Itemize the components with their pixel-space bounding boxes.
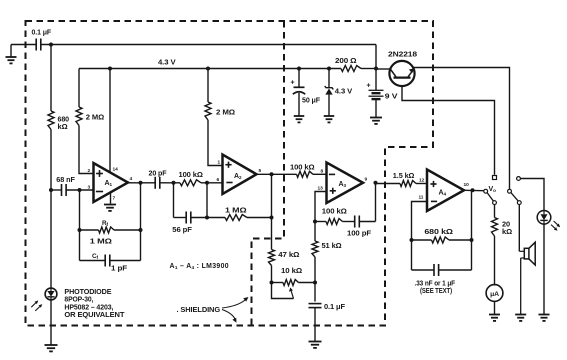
capacitor Cf 1pF plates xyxy=(105,255,110,267)
label 47 kOhm xyxy=(278,250,299,259)
svg-text:47 kΩ: 47 kΩ xyxy=(278,250,299,259)
wire 0.1uF to ground xyxy=(314,308,316,342)
op-amp A1 plus sign xyxy=(96,170,103,177)
wire A2 pin5 out xyxy=(257,173,297,175)
svg-text:100 pF: 100 pF xyxy=(347,229,372,238)
svg-text:14: 14 xyxy=(113,167,119,173)
wire .33nF right stub xyxy=(439,269,472,271)
ground (speaker) xyxy=(515,315,526,321)
pin 14 label xyxy=(113,167,119,173)
node rail at A1 pin14 xyxy=(108,67,112,71)
wire A3 out vertical xyxy=(375,183,377,222)
label 1.5 kOhm xyxy=(393,171,415,180)
wire rail to 2M top xyxy=(78,69,80,108)
resistor 100 kOhm (A3 in) xyxy=(297,171,314,177)
wire 100k to A3 pin8 xyxy=(313,173,327,175)
switch S1 (meter select) xyxy=(484,189,497,204)
svg-text:6: 6 xyxy=(217,177,220,183)
wire A1 pin4 out xyxy=(128,182,155,184)
svg-text:56 pF: 56 pF xyxy=(172,225,192,234)
svg-text:+: + xyxy=(291,80,295,87)
pin 13 label (A3 +in) xyxy=(318,186,324,192)
wire 20pF to 100k xyxy=(160,182,180,184)
node Rf left xyxy=(78,228,82,232)
wire photodiode to ground xyxy=(50,300,52,345)
wire A3 out to 1.5k xyxy=(376,183,401,185)
svg-text:2: 2 xyxy=(88,168,91,174)
resistor 200 Ohm xyxy=(341,66,361,72)
resistor 100 kOhm (A3 fb) xyxy=(326,219,343,225)
label plus (50uF) xyxy=(291,80,295,87)
pin 14 wire (A1 V+) xyxy=(109,69,111,173)
svg-text:0.1 μF: 0.1 μF xyxy=(32,28,52,37)
wire Q1 emitter lead xyxy=(402,86,495,175)
svg-text:13: 13 xyxy=(318,186,324,192)
svg-text:9 V: 9 V xyxy=(385,91,398,100)
svg-text:2N2218: 2N2218 xyxy=(388,50,417,59)
LED emission arrows xyxy=(551,221,560,231)
zener diode 4.3V symbol xyxy=(325,86,334,95)
wire 4.3V rail xyxy=(79,68,376,70)
speaker symbol xyxy=(519,242,535,314)
meter uA symbol xyxy=(486,285,503,302)
label A1-A4 LM3900 xyxy=(170,263,229,270)
wire 50uF to ground xyxy=(298,93,300,116)
label 9 V xyxy=(385,91,398,100)
label Vo xyxy=(489,186,497,193)
wire 100k to A2 pin6 xyxy=(201,182,223,184)
resistor 1 MOhm (A2 fb) xyxy=(225,215,247,221)
svg-text:1 MΩ: 1 MΩ xyxy=(90,236,112,245)
capacitor .33nF plates xyxy=(434,264,439,276)
resistor 680 kOhm (A4 fb) xyxy=(432,237,450,243)
op-amp A1 minus sign xyxy=(96,191,103,193)
pot wiper arm and arrow xyxy=(272,283,294,299)
node pot left junction xyxy=(270,281,274,285)
svg-text:200 Ω: 200 Ω xyxy=(335,56,357,65)
label Cf xyxy=(92,253,99,260)
switch S2 (speaker select) xyxy=(508,189,522,204)
node A2 fb junction xyxy=(205,216,209,220)
svg-text:8: 8 xyxy=(321,169,324,175)
LED D2 symbol xyxy=(537,211,551,225)
op-amp A4 triangle xyxy=(427,170,464,212)
label 20 pF xyxy=(149,169,168,178)
svg-text:0.1 μF: 0.1 μF xyxy=(324,302,346,311)
wire A2out junction down to 47k xyxy=(271,218,273,250)
label 0.1uF (filter) xyxy=(324,302,346,311)
wire 680k top segment xyxy=(50,45,52,112)
wire A2 -in to fb junction xyxy=(206,183,208,218)
svg-text:kΩ: kΩ xyxy=(58,122,68,131)
label 200 Ohm xyxy=(335,56,357,65)
svg-text:A1 – A4 : LM3900: A1 – A4 : LM3900 xyxy=(170,263,229,270)
op-amp A2 triangle xyxy=(223,155,257,195)
label 4.3 V (zener) xyxy=(335,87,353,96)
op-amp A2 minus sign xyxy=(226,182,232,184)
svg-text:10: 10 xyxy=(464,182,470,188)
wire fb node to 100k (A3 fb) xyxy=(315,221,326,223)
node 56pF tap left xyxy=(172,181,176,185)
svg-text:kΩ: kΩ xyxy=(502,227,512,236)
node rail at zener xyxy=(327,67,331,71)
ground (zener) xyxy=(324,116,335,122)
ground (A1 pin 7) xyxy=(104,205,116,211)
label SHIELDING with leader arrows xyxy=(177,297,249,323)
op-amp A4 plus sign xyxy=(430,181,436,187)
label 51 kOhm xyxy=(322,241,342,250)
label 10 kOhm xyxy=(281,266,302,275)
node A1 -in junction xyxy=(78,188,82,192)
ground (input common, top-left) xyxy=(6,45,17,64)
op-amp A2 label xyxy=(234,173,242,180)
wire 56pF left stub xyxy=(174,217,187,219)
wire 2M to A2 pin1 xyxy=(208,120,223,166)
pin 12 label (A4 +in) xyxy=(419,178,425,184)
pin 6 label (A2 -in) xyxy=(217,177,220,183)
label PHOTODIODE text xyxy=(64,287,125,319)
pin 2 label (A1 +in) xyxy=(88,168,91,174)
resistor 51 kOhm xyxy=(312,241,318,257)
label 4.3 V rail xyxy=(158,57,176,66)
wire 680k right stub xyxy=(449,239,472,241)
label 56 pF xyxy=(172,225,192,234)
wire 20k to meter xyxy=(494,236,496,286)
wire Cf left stub xyxy=(80,260,106,262)
wire pot right stub xyxy=(299,282,316,284)
wire 68nF to A1 pin3 xyxy=(66,189,93,191)
node A2 out junction xyxy=(270,172,274,176)
wire pot left stub xyxy=(272,282,284,284)
wire top rail (9V node line) xyxy=(41,44,376,46)
wire ground to C 0.1uF xyxy=(11,44,36,46)
label 20 kOhm xyxy=(502,219,512,236)
resistor 100 kOhm (A2 in) xyxy=(180,180,201,186)
label plus (battery) xyxy=(367,83,371,90)
resistor 2 MOhm (A1 bias) xyxy=(76,107,82,126)
op-amp A3 plus sign xyxy=(330,188,336,194)
op-amp A4 label xyxy=(439,190,447,197)
wire 680k to input node xyxy=(50,130,52,191)
label .33nF or 1uF xyxy=(415,278,456,295)
wire 2M to A1 pin2 xyxy=(79,126,94,174)
wire fb junction to 1M xyxy=(207,217,225,219)
pin 4 label (A1 out) xyxy=(130,176,133,182)
ground (meter) xyxy=(489,315,500,321)
wire 47k to pot left xyxy=(271,266,273,283)
wire input node to 68nF xyxy=(51,189,62,191)
node junction at 680k top xyxy=(49,43,53,47)
svg-text:4: 4 xyxy=(130,176,133,182)
svg-text:4.3 V: 4.3 V xyxy=(158,57,176,66)
wire 100k to 100pF xyxy=(343,221,355,223)
ground (LED) xyxy=(539,315,550,321)
svg-text:100 kΩ: 100 kΩ xyxy=(290,163,315,172)
resistor 20 kOhm xyxy=(492,218,498,237)
resistor 47 kOhm xyxy=(269,250,275,266)
svg-text:1: 1 xyxy=(218,160,221,166)
label Rf xyxy=(102,220,109,227)
node 680k right junction xyxy=(470,238,474,242)
wire A4 pin10 out xyxy=(464,189,484,191)
op-amp A2 plus sign xyxy=(225,162,231,168)
svg-text:+: + xyxy=(367,83,371,90)
pin 7 label xyxy=(113,196,116,202)
node A2 -in junction xyxy=(205,181,209,185)
svg-text:20 pF: 20 pF xyxy=(149,169,168,178)
wire A1 fb left vertical xyxy=(79,190,81,261)
wire top rail drop to 9V node xyxy=(375,45,377,69)
label 100 pF xyxy=(347,229,372,238)
shielding dashed enclosure (outer) xyxy=(26,21,434,326)
pin 9 label (A3 out) xyxy=(365,177,368,183)
op-amp A4 minus sign xyxy=(431,200,437,202)
svg-text:1 MΩ: 1 MΩ xyxy=(225,205,247,214)
node pot right junction xyxy=(313,281,317,285)
node A1 out junction xyxy=(139,181,143,185)
shielding dashed partition (inner) xyxy=(252,21,285,326)
wire rail to 50uF xyxy=(298,69,300,88)
svg-text:OR EQUIVALENT: OR EQUIVALENT xyxy=(64,310,125,319)
label 100 kOhm (A3 in) xyxy=(290,163,315,172)
transistor Q1 2N2218 xyxy=(389,61,414,86)
label 2 MOhm (A1) xyxy=(86,113,104,122)
svg-text:μA: μA xyxy=(490,291,499,298)
svg-text:50 μF: 50 μF xyxy=(302,95,321,104)
wire pot node to 0.1uF xyxy=(314,283,316,302)
svg-text:7: 7 xyxy=(113,196,116,202)
svg-text:4.3 V: 4.3 V xyxy=(335,87,353,96)
node 9V junction xyxy=(374,67,378,71)
pin 8 label (A3 -in) xyxy=(321,169,324,175)
node A3 fb junction xyxy=(313,220,317,224)
wire 56pF branch left vertical xyxy=(173,183,175,218)
wire A2 out vertical xyxy=(271,174,273,217)
wire A3 +in to fb node xyxy=(315,192,327,222)
wire 680k left stub xyxy=(412,239,432,241)
svg-text:5: 5 xyxy=(259,168,262,174)
capacitor 68 nF plates xyxy=(62,184,67,196)
svg-text:51 kΩ: 51 kΩ xyxy=(322,241,342,250)
wire S2 to speaker xyxy=(518,205,520,252)
op-amp A3 minus sign xyxy=(329,173,335,175)
wire 100pF to A3 out vertical xyxy=(359,221,375,223)
op-amp A1 triangle xyxy=(94,163,129,202)
capacitor 20 pF plates xyxy=(155,177,160,189)
capacitor 0.1uF (output filter) plates xyxy=(309,304,322,308)
node 680k left junction xyxy=(410,238,414,242)
ground (photodiode) xyxy=(45,345,58,351)
node rail at 2M (A2) xyxy=(206,67,210,71)
svg-text:10 kΩ: 10 kΩ xyxy=(281,266,302,275)
wire LED to ground xyxy=(543,224,545,315)
wire meter to ground xyxy=(494,301,496,315)
wire zener to ground xyxy=(328,95,330,116)
svg-text:1 pF: 1 pF xyxy=(111,263,128,272)
wire .33nF left stub xyxy=(412,269,435,271)
wire LED terminal to LED xyxy=(520,179,544,211)
capacitor 56 pF plates xyxy=(186,212,191,224)
wire Rf left stub xyxy=(80,229,99,231)
wire rail to 2M (A2) top xyxy=(207,69,209,103)
wire battery to ground xyxy=(375,99,377,117)
label 680 kOhm xyxy=(58,115,70,131)
photodiode incident light arrows xyxy=(31,300,42,311)
svg-text:2 MΩ: 2 MΩ xyxy=(86,113,104,122)
capacitor 50uF electrolytic xyxy=(293,87,305,94)
label 0.1uF xyxy=(32,28,52,37)
wire S1 to 20k xyxy=(494,205,496,218)
wire rail to zener xyxy=(328,69,330,88)
capacitor 0.1uF (input coupling) xyxy=(36,39,41,51)
wire 1M to right vertical xyxy=(247,217,272,219)
wire A4 -in to fb xyxy=(412,202,428,271)
label 68 nF xyxy=(56,175,75,184)
label 2 MOhm (A2) xyxy=(216,108,235,117)
terminal LED select (open circle) xyxy=(517,177,521,181)
op-amp A3 triangle xyxy=(327,163,364,204)
ground (0.1uF filter) xyxy=(309,342,322,348)
node 1M right junction xyxy=(270,216,274,220)
label 1 MOhm (A2 fb) xyxy=(225,205,247,214)
node Rf right xyxy=(139,228,143,232)
label 680 kOhm (A4 fb) xyxy=(424,227,453,236)
wire 51k to pot node xyxy=(314,257,316,283)
wire input node to photodiode xyxy=(50,190,52,288)
resistor 680 kOhm xyxy=(48,111,54,130)
wire A1 fb right vertical xyxy=(140,183,142,261)
terminal Vo (open square) xyxy=(493,176,497,180)
wire Rf right stub xyxy=(114,229,141,231)
capacitor 100 pF plates xyxy=(355,216,360,228)
pin 1 label (A2 +in) xyxy=(218,160,221,166)
wire Cf right stub xyxy=(110,260,141,262)
node input junction (photodiode node) xyxy=(49,188,53,192)
wire base lead (9V node to Q1) xyxy=(376,68,390,70)
wire 9V node to battery xyxy=(375,69,377,91)
resistor 1.5 kOhm xyxy=(400,181,416,187)
svg-text:680 kΩ: 680 kΩ xyxy=(424,227,453,236)
node A4 out junction xyxy=(471,188,475,192)
svg-text:1.5 kΩ: 1.5 kΩ xyxy=(393,171,415,180)
photodiode D1 symbol xyxy=(45,288,57,300)
resistor 2 MOhm (A2 bias) xyxy=(205,102,211,120)
wire Q1 collector to switch S2 xyxy=(414,68,510,190)
label 2N2218 xyxy=(388,50,417,59)
potentiometer 10 kOhm xyxy=(283,280,299,286)
label 1 MOhm (Rf) xyxy=(90,236,112,245)
svg-text:(SEE TEXT): (SEE TEXT) xyxy=(420,286,453,295)
resistor Rf 1 MOhm xyxy=(99,227,115,233)
ground (battery) xyxy=(370,118,382,124)
label 100 kOhm (A3 fb) xyxy=(322,207,347,216)
wire 1.5k to A4 pin12 xyxy=(416,183,427,185)
label 50 uF xyxy=(302,95,321,104)
pin 7 wire (A1 gnd) xyxy=(110,193,112,204)
pin 11 label (A4 -in) xyxy=(419,195,424,201)
svg-text:100 kΩ: 100 kΩ xyxy=(179,170,203,179)
svg-text:2 MΩ: 2 MΩ xyxy=(216,108,235,117)
svg-text:. SHIELDING: . SHIELDING xyxy=(177,305,221,314)
svg-text:68 nF: 68 nF xyxy=(56,175,75,184)
pin 3 label (A1 -in) xyxy=(88,185,91,191)
label 1 pF xyxy=(111,263,128,272)
wire A4 out vertical xyxy=(471,190,473,270)
wire 56pF right stub xyxy=(191,217,207,219)
svg-text:11: 11 xyxy=(419,195,424,201)
node A3 out junction xyxy=(374,181,378,185)
svg-text:12: 12 xyxy=(419,178,425,184)
svg-text:9: 9 xyxy=(365,177,368,183)
wire A3 fb node to 51k xyxy=(314,222,316,242)
op-amp A3 label xyxy=(339,181,347,188)
label 100 kOhm (A2 in) xyxy=(179,170,203,179)
battery 9V symbol xyxy=(369,90,384,99)
ground (50uF) xyxy=(294,116,305,122)
svg-text:100 kΩ: 100 kΩ xyxy=(322,207,347,216)
pin 10 label (A4 out) xyxy=(464,182,470,188)
pin 5 label (A2 out) xyxy=(259,168,262,174)
op-amp A1 label xyxy=(105,180,113,187)
node rail at 50uF xyxy=(297,67,301,71)
